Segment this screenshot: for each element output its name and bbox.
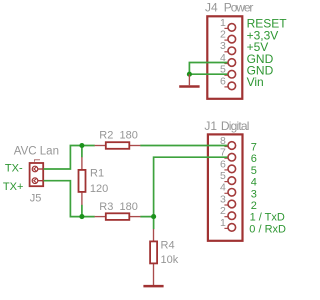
junction node at R1 bottom — [79, 214, 84, 219]
J5 pin 2 pad — [32, 178, 43, 184]
value label R1 120 — [90, 168, 108, 195]
J4 net labels — [247, 17, 288, 90]
svg-text:R1: R1 — [90, 168, 104, 180]
junction node at R1 top — [79, 143, 84, 148]
J5 pin 1 pad — [32, 166, 43, 172]
svg-text:0 / RxD: 0 / RxD — [249, 223, 286, 235]
svg-text:6: 6 — [251, 153, 257, 165]
ground symbol under R4 — [143, 285, 163, 288]
svg-text:TX+: TX+ — [3, 181, 23, 193]
resistor R1 — [79, 157, 86, 205]
J1 pin numbers 8-1 — [220, 135, 226, 229]
connector J1 body — [208, 134, 243, 240]
wire net GND at J4 pins 4,5 — [189, 63, 227, 75]
svg-text:1 / TxD: 1 / TxD — [250, 212, 285, 224]
connector J4 body — [207, 16, 242, 99]
svg-text:5: 5 — [220, 170, 226, 182]
junction node at J4 GND — [187, 72, 192, 77]
J4 pin pads 1-6 — [228, 24, 236, 90]
svg-text:5: 5 — [220, 64, 226, 76]
ground symbol under J4 — [179, 74, 199, 86]
svg-text:J1: J1 — [204, 119, 217, 133]
J4 pin ticks — [224, 28, 227, 87]
svg-text:2: 2 — [220, 205, 226, 217]
svg-text:7: 7 — [251, 142, 257, 154]
svg-text:2: 2 — [251, 200, 257, 212]
svg-text:2: 2 — [220, 29, 226, 41]
svg-text:1: 1 — [220, 217, 226, 229]
svg-text:J5: J5 — [30, 193, 42, 205]
wire net TX- : J5 pin1 to top rail to J1 pin8 — [44, 146, 228, 170]
wire net TX+ : J5 pin2 to bottom rail and J1 pin7 — [44, 157, 228, 229]
svg-text:J4: J4 — [205, 0, 218, 14]
svg-text:TX-: TX- — [5, 163, 23, 175]
svg-text:Vin: Vin — [247, 75, 264, 89]
svg-text:R2 180: R2 180 — [99, 129, 138, 141]
svg-text:Power: Power — [224, 0, 254, 14]
svg-text:5: 5 — [251, 165, 257, 177]
svg-text:6: 6 — [220, 75, 226, 87]
J1 pin pads 8-1 — [228, 142, 236, 232]
svg-text:10k: 10k — [161, 254, 179, 266]
svg-text:6: 6 — [220, 158, 226, 170]
J1 net labels — [249, 142, 286, 236]
svg-text:AVC Lan: AVC Lan — [14, 145, 59, 157]
svg-text:R4: R4 — [161, 239, 175, 251]
value label R4 10k — [161, 239, 179, 266]
connector J5 body — [30, 160, 44, 186]
svg-text:Digital: Digital — [221, 119, 249, 133]
resistor R3 — [95, 213, 141, 220]
svg-text:3: 3 — [220, 40, 226, 52]
svg-text:8: 8 — [220, 135, 226, 147]
svg-text:4: 4 — [220, 182, 226, 194]
svg-text:R3 180: R3 180 — [99, 201, 138, 213]
svg-text:7: 7 — [220, 147, 226, 159]
svg-text:4: 4 — [251, 177, 257, 189]
svg-text:1: 1 — [220, 17, 226, 29]
J4 pin numbers 1-6 — [220, 17, 226, 88]
svg-text:3: 3 — [251, 188, 257, 200]
svg-text:3: 3 — [220, 193, 226, 205]
resistor R2 — [95, 142, 141, 149]
junction node at R4 top — [151, 214, 156, 219]
svg-text:120: 120 — [90, 183, 108, 195]
J1 pin ticks — [224, 147, 227, 229]
resistor R4 — [150, 229, 157, 285]
svg-text:4: 4 — [220, 52, 226, 64]
